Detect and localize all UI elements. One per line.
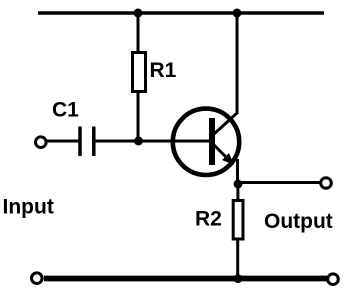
wire C1 to transistor base <box>96 140 211 143</box>
wire input terminal to C1 <box>47 140 79 143</box>
svg-text:Output: Output <box>264 210 333 233</box>
resistor R1 <box>133 53 146 92</box>
terminal ground right <box>328 274 339 285</box>
node junction rail/collector <box>233 9 242 18</box>
svg-text:C1: C1 <box>52 99 79 122</box>
transistor Q1 emitter lead <box>214 145 233 164</box>
terminal output <box>321 178 332 189</box>
svg-text:R1: R1 <box>150 59 177 82</box>
wire top supply rail <box>38 11 324 15</box>
svg-text:Input: Input <box>3 196 54 219</box>
wire R1 bottom to base node <box>137 91 140 141</box>
transistor Q1 body circle <box>173 109 239 175</box>
resistor R2 <box>233 201 243 240</box>
wire node to R2 top <box>236 184 239 201</box>
terminal ground left <box>32 273 43 284</box>
terminal input <box>36 137 47 148</box>
wire emitter to output node <box>236 159 239 184</box>
wire rail to R1 top <box>137 13 140 53</box>
wire bottom ground rail <box>44 276 327 282</box>
svg-text:R2: R2 <box>195 208 222 231</box>
wire to output terminal <box>238 181 320 184</box>
transistor Q1 emitter arrowhead <box>222 153 234 165</box>
capacitor C1 right plate <box>92 127 96 157</box>
node junction rail/R1 <box>134 9 143 18</box>
wire R2 bottom to ground rail <box>236 239 239 278</box>
capacitor C1 left plate <box>78 127 82 157</box>
transistor Q1 collector lead <box>214 113 238 135</box>
wire collector from rail <box>236 13 239 114</box>
node junction R2/ground rail <box>234 274 243 283</box>
node junction emitter/output/R2 <box>234 180 243 189</box>
transistor Q1 base bar <box>209 118 215 165</box>
node junction R1/base <box>134 137 143 146</box>
